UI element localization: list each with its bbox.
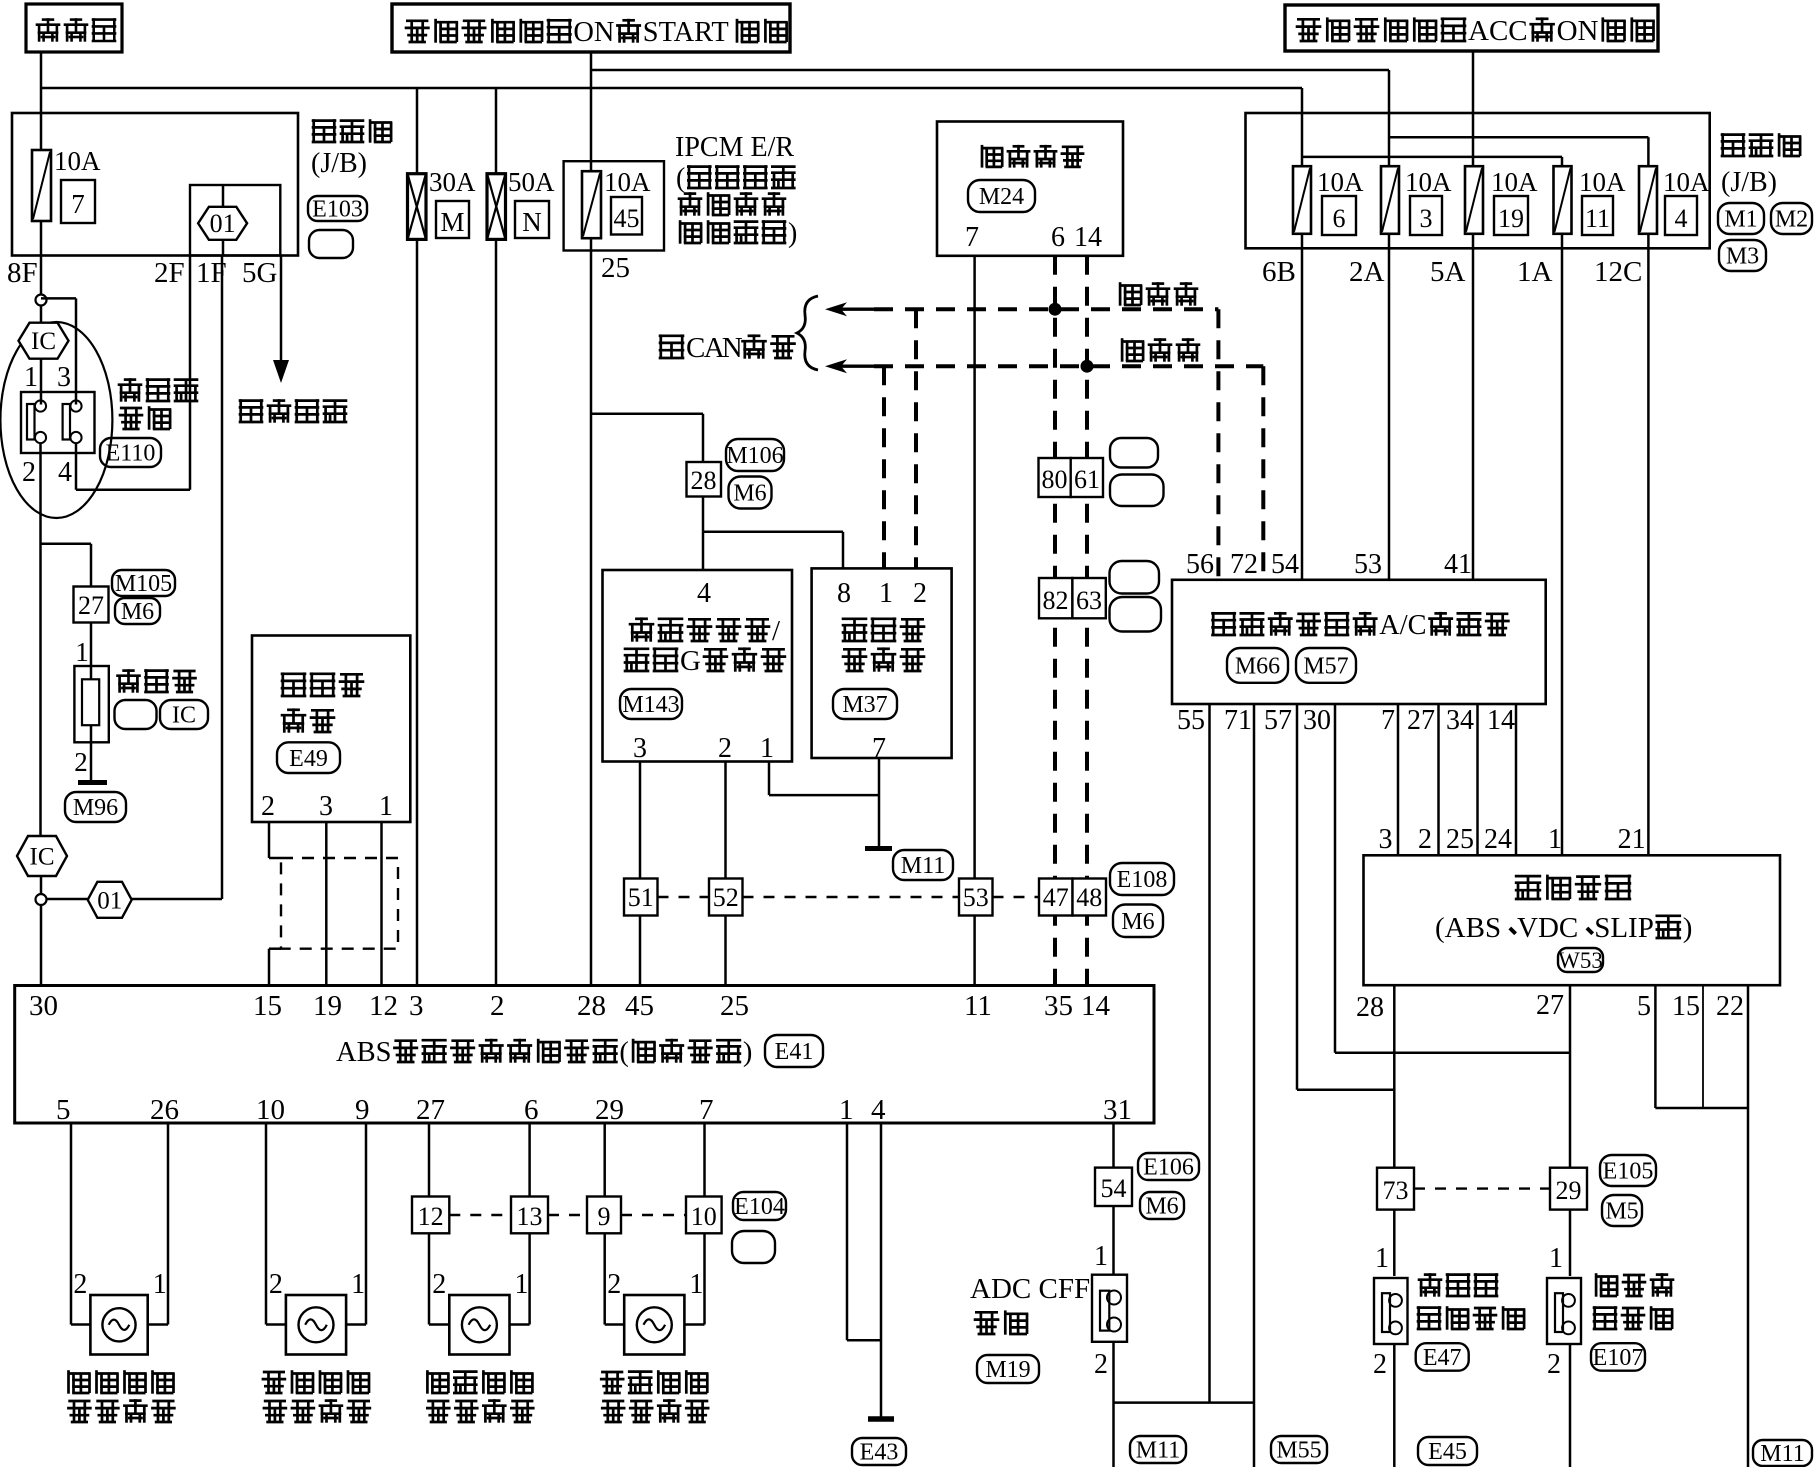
svg-text:12: 12 — [418, 1202, 444, 1231]
svg-text:M57: M57 — [1303, 654, 1348, 680]
svg-text:14: 14 — [1074, 222, 1102, 253]
svg-text:4: 4 — [58, 457, 72, 488]
svg-text:47: 47 — [1043, 883, 1069, 912]
svg-text:34: 34 — [1446, 705, 1474, 736]
svg-text:2: 2 — [22, 457, 36, 488]
svg-text:SLIP: SLIP — [1594, 912, 1654, 944]
svg-text:11: 11 — [1585, 204, 1610, 233]
svg-text:1: 1 — [24, 362, 38, 393]
svg-text:1: 1 — [879, 578, 893, 609]
svg-text:30A: 30A — [429, 167, 476, 197]
svg-text:29: 29 — [1556, 1176, 1582, 1205]
svg-text:2: 2 — [432, 1269, 446, 1300]
svg-text:72: 72 — [1230, 549, 1258, 580]
svg-text:53: 53 — [1354, 549, 1382, 580]
svg-text:ADC CFF: ADC CFF — [970, 1273, 1090, 1305]
svg-text:10A: 10A — [54, 146, 101, 176]
svg-text:14: 14 — [1487, 705, 1515, 736]
svg-text:11: 11 — [964, 990, 992, 1022]
svg-text:10A: 10A — [1317, 167, 1364, 197]
svg-text:M3: M3 — [1726, 244, 1759, 270]
svg-text:25: 25 — [601, 252, 630, 284]
svg-text:10: 10 — [256, 1094, 285, 1126]
svg-text:M5: M5 — [1605, 1199, 1638, 1225]
svg-text:ACC: ACC — [1468, 15, 1528, 47]
svg-text:START: START — [643, 17, 729, 48]
svg-text:24: 24 — [1484, 824, 1512, 855]
svg-text:2: 2 — [261, 791, 275, 822]
svg-text:25: 25 — [1446, 824, 1474, 855]
svg-text:45: 45 — [614, 204, 640, 233]
svg-text:E41: E41 — [775, 1039, 814, 1065]
svg-text:26: 26 — [150, 1094, 179, 1126]
svg-text:M: M — [440, 207, 464, 237]
svg-text:10A: 10A — [604, 167, 651, 197]
svg-text:1: 1 — [1548, 824, 1562, 855]
svg-text:7: 7 — [965, 222, 979, 253]
svg-text:30: 30 — [29, 990, 58, 1022]
svg-text:(ABS: (ABS — [1435, 912, 1501, 944]
svg-text:6: 6 — [524, 1094, 539, 1126]
svg-text:57: 57 — [1264, 705, 1292, 736]
svg-text:E110: E110 — [106, 441, 156, 467]
svg-text:2: 2 — [269, 1269, 283, 1300]
svg-text:1: 1 — [351, 1269, 365, 1300]
svg-text:6: 6 — [1051, 222, 1065, 253]
svg-text:19: 19 — [313, 990, 342, 1022]
svg-text:2: 2 — [74, 747, 88, 777]
svg-text:5: 5 — [56, 1094, 71, 1126]
svg-text:4: 4 — [697, 578, 711, 609]
svg-text:10: 10 — [691, 1202, 717, 1231]
svg-text:35: 35 — [1044, 990, 1073, 1022]
svg-text:41: 41 — [1444, 549, 1472, 580]
svg-text:9: 9 — [598, 1202, 611, 1231]
svg-text:ON: ON — [573, 17, 614, 48]
svg-text:2: 2 — [73, 1269, 87, 1300]
svg-text:E106: E106 — [1143, 1155, 1194, 1181]
svg-text:1: 1 — [760, 733, 774, 764]
svg-text:E103: E103 — [312, 197, 363, 223]
svg-text:E43: E43 — [860, 1440, 899, 1466]
svg-text:1: 1 — [75, 637, 89, 667]
svg-text:80: 80 — [1042, 465, 1068, 494]
svg-text:): ) — [788, 218, 797, 249]
svg-text:6B: 6B — [1262, 256, 1296, 288]
svg-text:1: 1 — [153, 1269, 167, 1300]
svg-text:4: 4 — [871, 1094, 886, 1126]
svg-text:82: 82 — [1043, 586, 1069, 615]
svg-text:W53: W53 — [1558, 948, 1603, 973]
svg-text:IC: IC — [31, 328, 56, 355]
svg-text:M6: M6 — [121, 599, 154, 625]
svg-text:52: 52 — [713, 883, 739, 912]
svg-text:M2: M2 — [1775, 207, 1808, 233]
svg-text:(: ( — [619, 1037, 629, 1068]
svg-text:M19: M19 — [985, 1357, 1030, 1383]
svg-text:55: 55 — [1177, 705, 1205, 736]
svg-text:E45: E45 — [1428, 1439, 1467, 1465]
svg-text:56: 56 — [1186, 549, 1214, 580]
svg-text:(J/B): (J/B) — [311, 148, 367, 179]
svg-text:1: 1 — [839, 1094, 854, 1126]
svg-text:/: / — [772, 615, 781, 647]
svg-text:8F: 8F — [7, 257, 38, 289]
svg-text:54: 54 — [1101, 1174, 1127, 1203]
svg-text:27: 27 — [1407, 705, 1435, 736]
svg-text:15: 15 — [253, 990, 282, 1022]
svg-text:31: 31 — [1103, 1094, 1132, 1126]
svg-text:73: 73 — [1383, 1176, 1409, 1205]
svg-text:2: 2 — [1094, 1349, 1108, 1380]
svg-text:M24: M24 — [979, 184, 1024, 210]
svg-text:3: 3 — [319, 791, 333, 822]
svg-text:6: 6 — [1333, 204, 1346, 233]
svg-text:E104: E104 — [734, 1194, 785, 1220]
svg-text:IPCM E/R: IPCM E/R — [675, 132, 794, 163]
svg-text:71: 71 — [1224, 705, 1252, 736]
svg-text:61: 61 — [1074, 465, 1100, 494]
svg-text:10A: 10A — [1405, 167, 1452, 197]
svg-text:1: 1 — [1375, 1243, 1389, 1274]
svg-text:50A: 50A — [508, 167, 555, 197]
svg-text:E107: E107 — [1593, 1345, 1644, 1371]
svg-text:M11: M11 — [901, 853, 945, 879]
svg-text:1: 1 — [1549, 1243, 1563, 1274]
svg-text:M55: M55 — [1276, 1438, 1321, 1464]
svg-text:9: 9 — [355, 1094, 370, 1126]
svg-text:63: 63 — [1076, 586, 1102, 615]
svg-text:3: 3 — [409, 990, 424, 1022]
svg-text:3: 3 — [633, 733, 647, 764]
svg-text:12C: 12C — [1594, 256, 1642, 288]
svg-text:45: 45 — [625, 990, 654, 1022]
svg-text:2F: 2F — [154, 257, 185, 289]
svg-text:1: 1 — [379, 791, 393, 822]
svg-text:3: 3 — [57, 362, 71, 393]
svg-text:2A: 2A — [1349, 256, 1385, 288]
svg-text:10A: 10A — [1663, 167, 1710, 197]
svg-text:2: 2 — [913, 578, 927, 609]
svg-text:2: 2 — [718, 733, 732, 764]
svg-text:19: 19 — [1498, 204, 1524, 233]
svg-text:5G: 5G — [242, 257, 278, 289]
svg-text:1: 1 — [1094, 1241, 1108, 1272]
svg-text:M6: M6 — [1145, 1194, 1178, 1220]
svg-text:1A: 1A — [1517, 256, 1553, 288]
svg-text:8: 8 — [837, 578, 851, 609]
svg-text:21: 21 — [1618, 824, 1646, 855]
svg-text:7: 7 — [71, 189, 85, 219]
svg-text:2: 2 — [607, 1269, 621, 1300]
svg-text:3: 3 — [1420, 204, 1433, 233]
svg-text:29: 29 — [595, 1094, 624, 1126]
svg-text:5A: 5A — [1430, 256, 1466, 288]
svg-text:E108: E108 — [1117, 867, 1168, 893]
svg-text:VDC: VDC — [1517, 912, 1578, 944]
svg-text:27: 27 — [1536, 990, 1564, 1021]
svg-text:1: 1 — [689, 1269, 703, 1300]
svg-text:M66: M66 — [1235, 654, 1280, 680]
svg-text:IC: IC — [30, 844, 55, 871]
svg-text:A/C: A/C — [1379, 610, 1426, 641]
svg-text:28: 28 — [691, 466, 717, 495]
svg-text:C: C — [686, 332, 705, 364]
svg-text:ON: ON — [1557, 15, 1599, 47]
svg-text:51: 51 — [628, 883, 654, 912]
svg-text:25: 25 — [720, 990, 749, 1022]
svg-text:2: 2 — [490, 990, 505, 1022]
svg-text:(: ( — [676, 163, 685, 194]
svg-text:22: 22 — [1716, 991, 1744, 1022]
svg-text:M105: M105 — [115, 571, 172, 597]
svg-text:13: 13 — [517, 1202, 543, 1231]
svg-text:48: 48 — [1076, 883, 1102, 912]
svg-text:M6: M6 — [733, 481, 766, 507]
svg-text:M96: M96 — [73, 795, 118, 821]
svg-text:(J/B): (J/B) — [1721, 167, 1777, 198]
svg-text:27: 27 — [416, 1094, 445, 1126]
svg-text:E49: E49 — [289, 746, 328, 772]
svg-text:10A: 10A — [1579, 167, 1626, 197]
svg-text:28: 28 — [1356, 992, 1384, 1023]
svg-text:28: 28 — [577, 990, 606, 1022]
svg-text:01: 01 — [210, 209, 236, 238]
svg-text:M6: M6 — [1121, 909, 1154, 935]
svg-text:1: 1 — [515, 1269, 529, 1300]
svg-text:): ) — [743, 1037, 753, 1068]
svg-text:M1: M1 — [1724, 207, 1757, 233]
svg-text:15: 15 — [1672, 991, 1700, 1022]
svg-text:M11: M11 — [1760, 1441, 1804, 1467]
svg-text:N: N — [722, 332, 743, 364]
svg-text:7: 7 — [1381, 705, 1395, 736]
svg-text:E105: E105 — [1603, 1159, 1654, 1185]
svg-text:10A: 10A — [1491, 167, 1538, 197]
svg-text:53: 53 — [963, 883, 989, 912]
svg-text:4: 4 — [1675, 204, 1688, 233]
svg-text:5: 5 — [1637, 991, 1651, 1022]
svg-text:E47: E47 — [1423, 1345, 1462, 1371]
svg-text:14: 14 — [1081, 990, 1111, 1022]
svg-text:IC: IC — [172, 703, 196, 729]
svg-text:M37: M37 — [842, 692, 887, 718]
svg-text:M11: M11 — [1136, 1438, 1180, 1464]
svg-text:ABS: ABS — [336, 1037, 391, 1068]
svg-text:2: 2 — [1547, 1349, 1561, 1380]
svg-text:7: 7 — [699, 1094, 714, 1126]
svg-text:30: 30 — [1303, 705, 1331, 736]
svg-text:01: 01 — [97, 887, 122, 914]
svg-text:G: G — [680, 645, 701, 677]
svg-text:27: 27 — [78, 591, 104, 620]
svg-text:M106: M106 — [726, 443, 783, 469]
svg-text:2: 2 — [1418, 824, 1432, 855]
svg-text:2: 2 — [1373, 1349, 1387, 1380]
svg-text:): ) — [1683, 912, 1693, 944]
svg-text:N: N — [522, 207, 542, 237]
svg-text:3: 3 — [1379, 824, 1393, 855]
svg-text:12: 12 — [369, 990, 398, 1022]
svg-text:M143: M143 — [622, 692, 679, 718]
svg-text:54: 54 — [1271, 549, 1299, 580]
